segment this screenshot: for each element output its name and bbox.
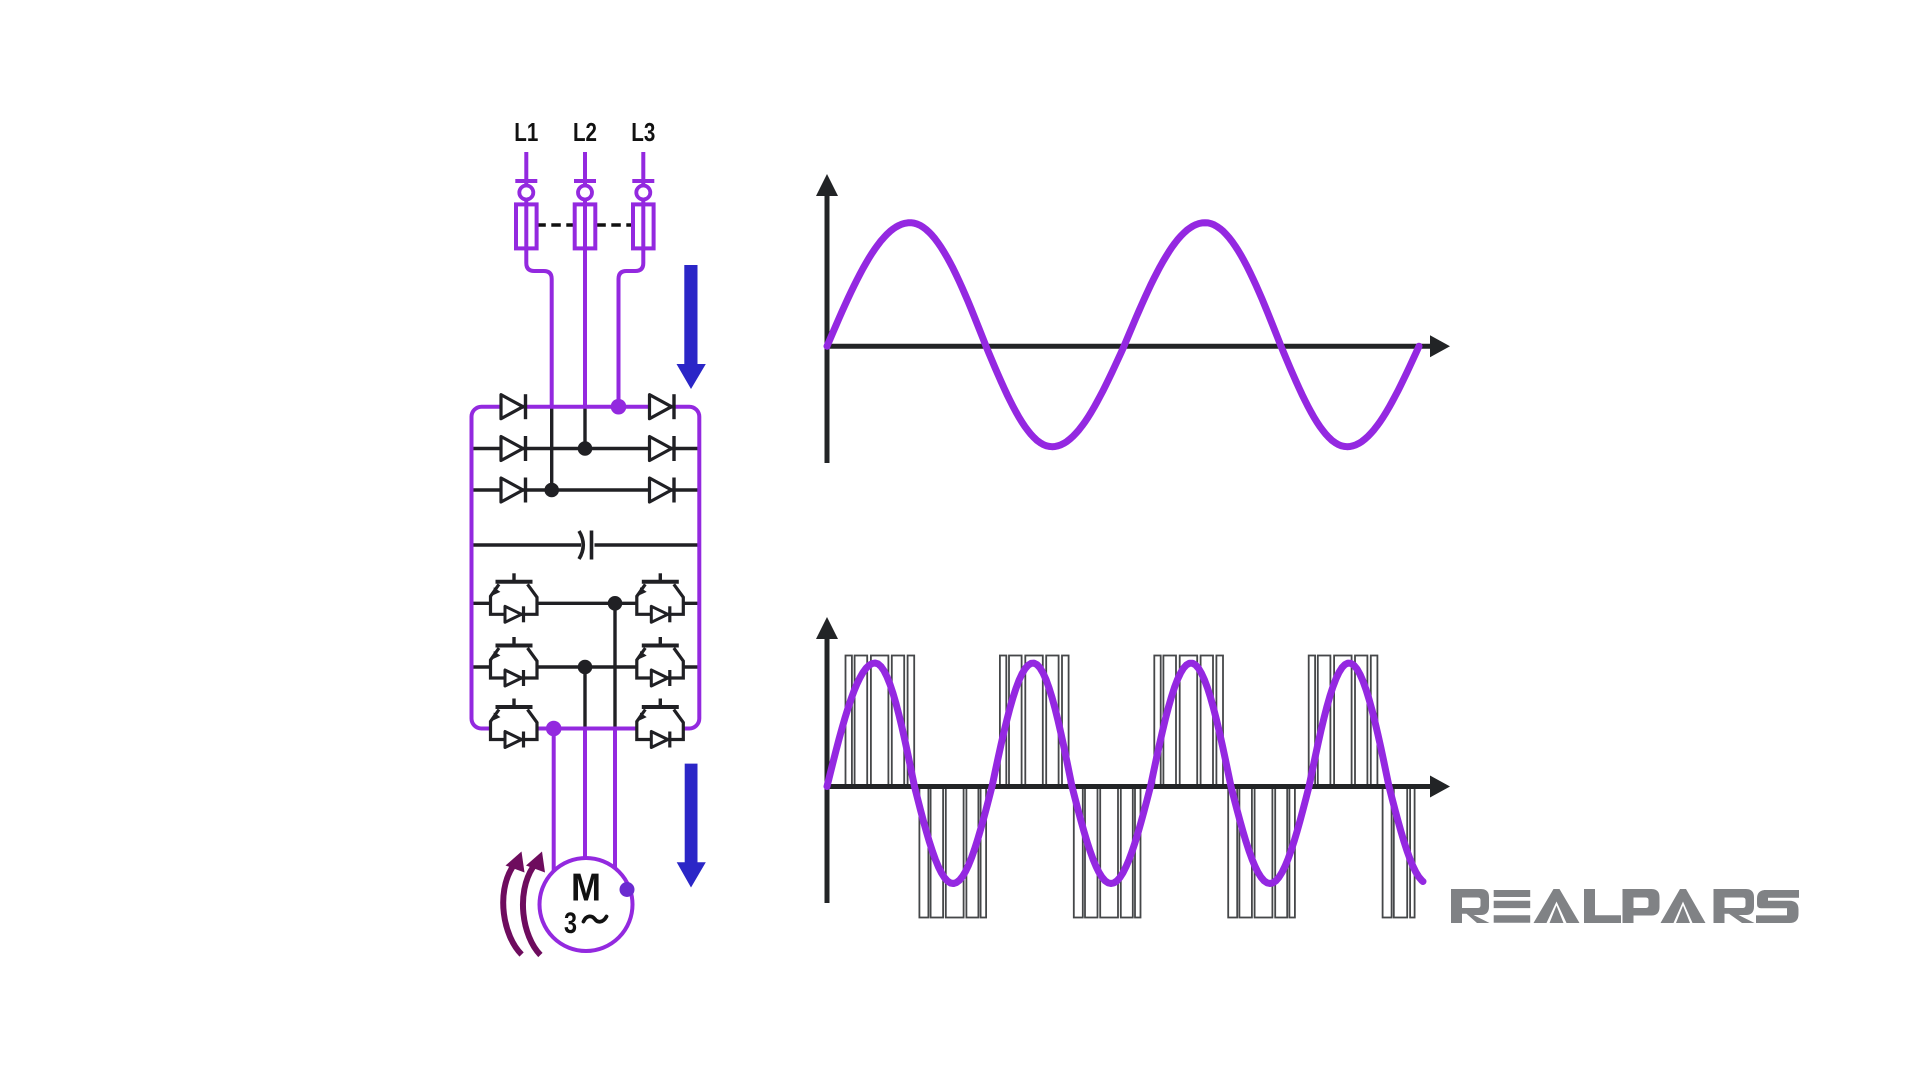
diode D2	[650, 394, 675, 419]
node: motor terminal dot	[620, 882, 635, 897]
fuse L2	[575, 204, 596, 248]
inverter bus row 2	[472, 665, 700, 668]
motor M 3-phase	[540, 858, 633, 951]
PWM pulses positive	[846, 656, 1378, 787]
node: phase V junction row 2	[578, 660, 593, 675]
blue arrow: input power flow	[677, 265, 706, 389]
phase label L1	[514, 117, 538, 147]
diode D1	[501, 394, 526, 419]
blue arrow: output power flow	[677, 764, 706, 888]
wire phase V to motor	[583, 729, 587, 859]
IGBT Q6	[637, 699, 684, 748]
logo letter L	[1584, 889, 1621, 923]
disconnect switch L1	[515, 181, 537, 200]
svg-text:M: M	[571, 867, 601, 910]
motor rotation arrow inner	[523, 852, 545, 956]
logo letter E	[1494, 890, 1531, 923]
sine wave (output fundamental)	[827, 663, 1423, 884]
rectifier bus row 2	[472, 447, 700, 450]
top graph X axis	[827, 335, 1450, 357]
logo letter A2	[1661, 889, 1706, 923]
wire L1 internal drop	[550, 407, 553, 490]
rectifier bus row 3	[472, 488, 700, 491]
wire L3 to rectifier	[619, 152, 644, 407]
fuse interlock dashed link	[536, 223, 633, 226]
inverter bus row 1	[472, 602, 700, 605]
wire phase W to motor	[613, 729, 617, 869]
node: L1 junction on row 3	[544, 483, 559, 498]
phase label L2	[573, 117, 597, 147]
diode D5	[501, 478, 526, 503]
sine wave (input voltage)	[827, 223, 1419, 447]
fuse L3	[633, 204, 654, 248]
wire phase W drop (inside)	[613, 603, 616, 728]
diode D6	[650, 478, 675, 503]
top graph Y axis	[816, 174, 838, 463]
diode D4	[650, 436, 675, 461]
IGBT Q2	[637, 573, 684, 622]
IGBT Q5	[491, 699, 538, 748]
svg-text:L1: L1	[514, 117, 538, 147]
fuse L1	[516, 204, 537, 248]
disconnect switch L2	[574, 181, 596, 200]
wire phase V drop (inside)	[583, 667, 586, 729]
motor rotation arrow outer	[503, 852, 524, 955]
DC bus wire right	[595, 543, 700, 546]
wire L2 to rectifier	[583, 152, 587, 407]
bottom graph X axis	[827, 776, 1450, 798]
node: L3 junction on row 1	[611, 399, 627, 415]
DC bus wire left	[472, 543, 582, 546]
node: L2 junction on row 2	[578, 441, 593, 456]
node: phase U junction row 3	[546, 721, 562, 737]
logo letter S	[1756, 890, 1799, 923]
IGBT Q1	[491, 573, 538, 622]
logo letter P	[1623, 889, 1660, 923]
disconnect switch L3	[632, 181, 654, 200]
IGBT Q3	[491, 637, 538, 686]
IGBT Q4	[637, 637, 684, 686]
node: phase W junction row 1	[608, 596, 623, 611]
converter enclosure	[472, 407, 700, 729]
logo letter R2	[1714, 889, 1755, 923]
phase label L3	[631, 117, 655, 147]
svg-text:L3: L3	[631, 117, 655, 147]
wire phase U to motor	[552, 729, 556, 872]
bottom graph Y axis	[816, 617, 838, 903]
capacitor C1	[579, 531, 592, 560]
wire L1 to rectifier	[526, 152, 551, 407]
logo letter A	[1534, 889, 1580, 923]
PWM pulses negative	[919, 787, 1414, 918]
wire L2 internal drop	[583, 407, 586, 449]
svg-text:3: 3	[564, 907, 577, 940]
diode D3	[501, 436, 526, 461]
logo letter R	[1451, 889, 1490, 923]
svg-text:L2: L2	[573, 117, 597, 147]
